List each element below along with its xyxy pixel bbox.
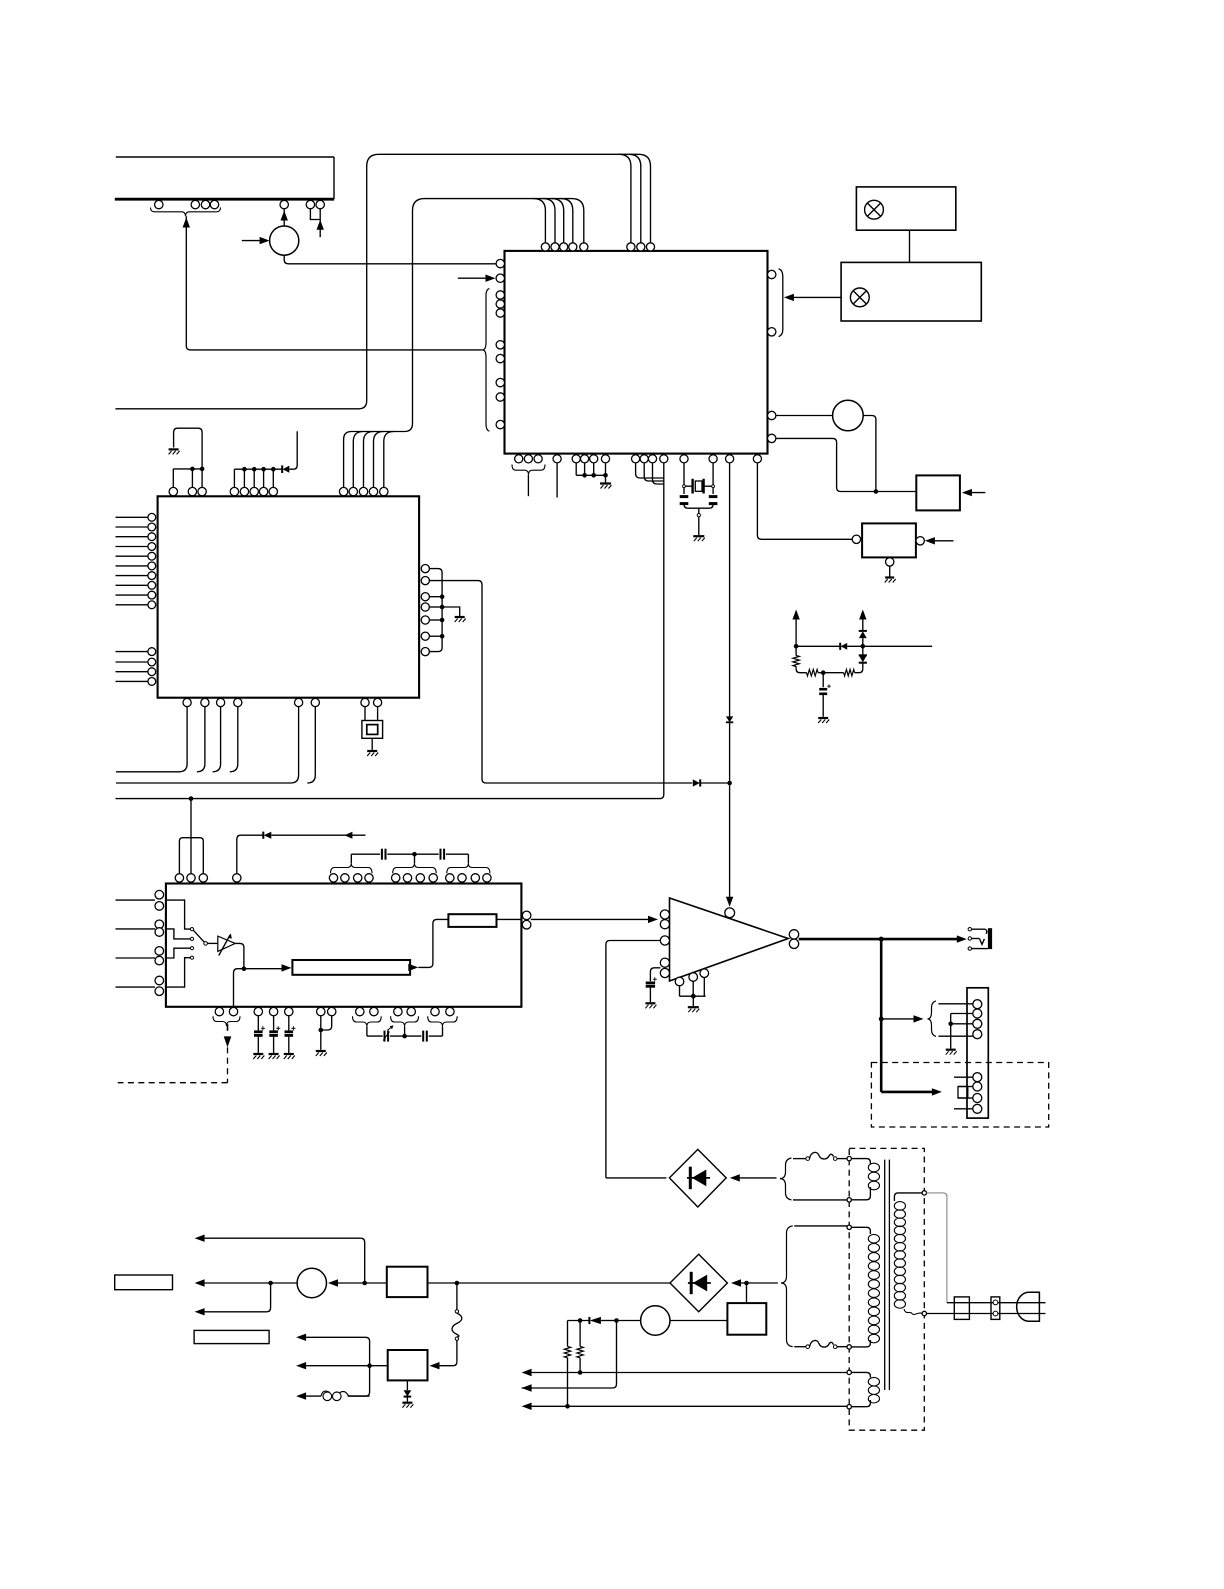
arrow into BR1 from transformer	[730, 1174, 777, 1181]
fuse holder box on AC line	[954, 1297, 969, 1320]
diode D7 on AC line	[568, 1317, 601, 1324]
wire IC2 pin around to diode junction	[430, 581, 693, 783]
polarized cap C8 to ground	[819, 673, 831, 717]
arrow stub into box B1	[965, 492, 986, 494]
wire pin to circle Q1	[283, 209, 285, 226]
ground IC2 rail	[455, 617, 466, 622]
wire rail to ground	[605, 475, 607, 482]
junction dot for line out branch	[879, 1017, 884, 1022]
capacitor Cx1	[680, 495, 689, 498]
power output arrow 2	[195, 1279, 298, 1286]
junction dot	[874, 489, 879, 494]
wire IC1 pin down to power amp with diode D1	[726, 463, 733, 900]
wire bundle IC3 top pins to bus	[179, 799, 203, 874]
ground below B2	[885, 578, 896, 583]
wire IC1 pin to crystal left	[683, 463, 685, 494]
IC2 left pin stub wires	[116, 517, 148, 681]
wire rail to ground	[442, 607, 460, 616]
wire CN1 brace to IC1 brace	[186, 216, 482, 350]
ground IC1 rail	[600, 484, 612, 489]
wire W1 bottom	[793, 1199, 847, 1201]
bridge rectifier BR1 diamond	[669, 1149, 726, 1207]
power output arrow 3	[195, 1283, 271, 1316]
junction dot	[319, 1028, 324, 1033]
bottom rail with resistors R2 R3	[796, 669, 863, 676]
resistor R4 vertical	[564, 1321, 570, 1407]
transformer primary terminals	[847, 1156, 851, 1409]
circle F1 fuse	[641, 1306, 670, 1335]
wire M1 to junction	[863, 416, 876, 492]
brace under IC1 bottom pin group	[512, 465, 545, 475]
wire IC1 bottom pin to box B2	[757, 463, 852, 539]
wire between lamp boxes	[909, 230, 911, 262]
AC plug	[1017, 1292, 1040, 1321]
variable amplifier triangle	[218, 933, 235, 955]
diode symbol in BR1	[687, 1167, 710, 1190]
ground IC2 loop	[169, 449, 180, 454]
brace line out connector	[928, 1001, 937, 1037]
electrolytic caps C3 C4 C5 with grounds	[253, 1016, 265, 1059]
wire W2 top	[794, 1225, 847, 1227]
IC3 bottom pins	[215, 1007, 454, 1015]
ground regulator cap	[818, 718, 829, 723]
CN1 pins	[155, 200, 325, 208]
dashed option box	[871, 1063, 1048, 1128]
wire B2 pin to ground	[889, 566, 891, 576]
speaker output thick wire	[799, 938, 963, 941]
arrowhead into headphone jack	[957, 935, 967, 942]
box B2	[862, 523, 916, 557]
line-out connector pins	[973, 1000, 982, 1114]
wire IC1 pin to crystal right	[712, 463, 714, 494]
wire junction down to middle rail	[522, 1321, 617, 1389]
arrowhead down into power amp top pin	[726, 897, 733, 907]
filter block	[448, 914, 496, 927]
crystal X2	[362, 721, 383, 750]
brace winding W1	[780, 1158, 792, 1200]
junction dot on amp feed wire	[727, 781, 732, 786]
wire thermal to box PB2 with arrow	[430, 1362, 457, 1370]
power output arrow 5	[296, 1362, 370, 1369]
junction dot on speaker line	[879, 937, 884, 942]
horizontal wire with diode D6	[796, 643, 932, 650]
junction dots on regulator wire	[794, 644, 865, 649]
IC2 left pins	[148, 513, 156, 685]
arrow line out to brace	[881, 1018, 915, 1020]
IC3 internal input selector wiring	[166, 900, 191, 987]
power amp top pin	[725, 908, 735, 918]
wire CN1 pin jumper U	[310, 209, 320, 220]
winding W1 coil	[851, 1159, 879, 1200]
crystal X1	[683, 479, 715, 494]
zener pair on right branch	[859, 646, 867, 668]
junction dot on bus to IC3	[189, 796, 194, 801]
resistor R1 vertical	[793, 646, 799, 668]
selector switch contacts	[190, 928, 207, 960]
diode D2 on rail with stub up	[282, 431, 297, 473]
arrow into Q1 from left	[242, 240, 261, 242]
headphone jack J1	[968, 928, 992, 951]
junction dots on power rails	[565, 1370, 582, 1408]
junction dot connector ground wire	[948, 1022, 953, 1027]
brace under CN1 pins	[151, 208, 221, 217]
winding W2 coil	[851, 1227, 879, 1347]
wire fuse to box B3	[670, 1320, 727, 1322]
IC1 bottom pins	[515, 455, 762, 463]
junction dots on loop rail	[190, 467, 204, 472]
winding W3 coil	[851, 1372, 879, 1406]
transformer dashed box	[849, 1148, 924, 1430]
wire junction to delay line with arrow	[244, 968, 284, 970]
box PB1 regulator	[387, 1267, 428, 1297]
wires brace to connector pins	[938, 1004, 972, 1036]
wire diode line to fuse	[601, 1320, 641, 1322]
wire PB2 left to output rail	[370, 1365, 388, 1367]
ground PB2 diode	[402, 1403, 413, 1408]
power amp input pins	[660, 910, 669, 978]
connector middle pins to ground	[951, 1014, 973, 1049]
interlock connector on AC line	[991, 1297, 1000, 1320]
wire W2 bottom with fuse F2	[794, 1340, 847, 1348]
IC3 top pins	[175, 874, 491, 882]
indicator box L1	[856, 187, 955, 230]
arrow stub into box B2 right pin	[928, 540, 954, 542]
junction dot in IC3	[242, 966, 247, 971]
amp bottom pins to ground bracket	[680, 978, 706, 1007]
arrow into BR2 from brace	[731, 1279, 778, 1286]
ground crystal X2	[367, 751, 378, 756]
wire amp to junction	[235, 943, 244, 968]
wire Q1 bottom to IC1 pin row	[284, 255, 496, 264]
junction dot thermal branch	[455, 1281, 460, 1286]
wires caps to common rail and ground node	[684, 504, 713, 535]
ground crystal X1	[693, 536, 705, 541]
IC3 left stub wires	[116, 900, 156, 987]
wire amp pin to decoupling cap	[650, 968, 660, 982]
power amplifier IC4 triangle	[670, 898, 789, 981]
junction dot bottom rail	[821, 670, 826, 675]
wire junction to bottom pin	[234, 969, 244, 1008]
lower connector pin stubs and link square	[954, 1077, 973, 1109]
IC1 ground pin rail	[576, 463, 605, 475]
junction dot BR2 feed	[744, 1281, 749, 1286]
stub wire from brace	[527, 475, 529, 496]
delay line block	[292, 960, 410, 975]
ground power amp	[688, 1007, 700, 1012]
IC3 left pins	[155, 890, 164, 995]
IC2 bottom pins	[183, 698, 382, 706]
IC3 audio processor box	[166, 884, 522, 1007]
diode symbol in BR2	[688, 1272, 711, 1294]
arrowhead up into CN1 pin	[281, 211, 288, 221]
power output arrow 6 with inductor	[296, 1391, 370, 1401]
supply arrow up right with diode D5	[859, 610, 867, 647]
switch arm	[193, 930, 204, 942]
lamp symbol in L1	[865, 200, 884, 219]
motor M1	[833, 400, 864, 431]
power rail arrows left	[522, 1369, 847, 1410]
diode D8 below PB2 to ground	[404, 1380, 412, 1401]
arrow stub into IC1 left pin 2	[458, 277, 488, 279]
IC3 right pins	[522, 911, 531, 929]
box PB2 regulator	[388, 1350, 428, 1380]
secondary top wire grey	[927, 1193, 947, 1303]
wire filter to IC3 output pins	[497, 918, 523, 920]
transformer core	[885, 1160, 890, 1390]
junction dot on lower cap rail	[402, 1034, 407, 1039]
label box LB2	[194, 1330, 269, 1343]
circle F2 motor	[297, 1268, 326, 1297]
braces under IC3 bottom pin pairs	[353, 1016, 458, 1026]
IC1 right pins	[768, 270, 776, 442]
IC1 left pins	[496, 259, 504, 428]
arrow out of delay line	[408, 964, 418, 971]
supply arrow up left	[792, 610, 799, 647]
box B1	[916, 475, 960, 510]
IC2 top ground loop circuit	[173, 428, 202, 487]
wire pole to amplifier	[207, 942, 217, 944]
junction dots on diode rail	[242, 467, 276, 472]
bridge rectifier BR2 diamond	[670, 1254, 727, 1311]
wire junction down to box B3	[746, 1283, 748, 1303]
wire IC1 pin to motor M1	[776, 415, 833, 417]
wire IC1 pins merging to bus going left	[116, 463, 664, 799]
brace under IC3 bottom pin pair 1	[213, 1016, 240, 1026]
wire stub with up arrow into CN1 pin	[319, 209, 321, 237]
arrow into F2 from box PB1	[328, 1279, 387, 1286]
wire IC3 outputs to power amp with arrow	[531, 918, 650, 920]
junction dot arrow2 wire	[268, 1281, 273, 1286]
arrowhead up into CN1 brace	[183, 218, 190, 228]
secondary coil	[894, 1193, 922, 1315]
IC2 top pins	[169, 487, 388, 495]
junction dot amp ground bracket	[691, 994, 696, 999]
wire bus L2 from IC1 top pins to IC2 top pins	[344, 199, 584, 487]
IC1 top pins	[541, 243, 654, 251]
braces above IC3 top pin groups	[331, 863, 490, 873]
thick wire down to record connector	[881, 939, 933, 1092]
wire L2 to IC1 right bracket with arrow	[792, 296, 841, 298]
label box LB1	[115, 1275, 173, 1290]
wire W1 top with fuse F1	[793, 1152, 847, 1160]
resistor R5 vertical	[577, 1321, 583, 1373]
capacitor rail over IC3 with caps C1 C2	[351, 849, 468, 864]
junction dots on AC control line	[578, 1318, 619, 1323]
ground connector	[946, 1050, 957, 1055]
power amp bottom pins	[675, 969, 708, 986]
wire PB1 to BR2	[428, 1282, 671, 1284]
power amp output pins	[789, 930, 798, 949]
junction dots on right rail	[440, 594, 445, 638]
junction dot on cap rail	[412, 852, 417, 857]
junction dots on ground rail	[582, 473, 608, 478]
thermal fuse squiggle down	[452, 1283, 462, 1362]
line-out connector block	[967, 988, 988, 1118]
box B2 side pins	[852, 535, 924, 545]
transformer secondary terminals	[922, 1191, 926, 1316]
IC2 servo signal processor	[158, 496, 420, 697]
brace winding W2	[781, 1226, 793, 1347]
diode D3 on horizontal wire	[693, 779, 728, 786]
junction dot PB2 rail	[367, 1363, 372, 1368]
wire IC1 pin to box B1	[776, 438, 916, 491]
box B2 bottom pin	[886, 558, 894, 566]
capacitor rail under IC3 with caps C6 C7	[367, 1025, 443, 1041]
junction dot arrow1 wire	[362, 1281, 367, 1286]
IC2 right pin rail	[430, 569, 443, 652]
indicator box L2	[841, 262, 981, 321]
circle Q1 rotation sensor	[270, 226, 299, 255]
IC2 diode pin rail	[234, 469, 281, 487]
IC2 right pins	[421, 565, 429, 656]
dashed signal arrow down-left	[118, 1024, 232, 1083]
ground amp cap	[645, 1003, 656, 1008]
wire bundle IC2 bottom pins to left edge lower	[116, 707, 315, 783]
box B3 power supply switch	[727, 1303, 766, 1335]
capacitor Cx2	[709, 495, 718, 498]
connector block CN1 (top-left, open at page edge)	[115, 157, 334, 199]
stub wire from IC1 single pin	[556, 463, 558, 498]
bracket IC1 right pins	[779, 269, 783, 337]
wire amp input down to bridge BR1	[606, 1177, 667, 1179]
wire IC3 pin with diode D4 and arrow	[237, 832, 366, 874]
wire bus L1 from IC1 top pins to left edge	[115, 154, 650, 408]
arrowhead into lower connector	[932, 1088, 942, 1095]
ground pin pair	[316, 1051, 327, 1056]
brace IC1 left pin group	[482, 288, 489, 431]
polarized cap at amp input	[646, 977, 657, 1002]
wire bundle IC2 bottom pins to left edge upper	[116, 707, 238, 772]
lamp symbol in L2	[850, 288, 869, 307]
power output arrow 4	[296, 1334, 370, 1397]
AC line wires to plug	[927, 1303, 1046, 1314]
wire input from bridge rectifier line	[606, 941, 660, 1178]
IC1 system control microprocessor	[505, 251, 768, 454]
wire delay line to filter block	[418, 919, 448, 967]
wires IC2 pins to crystal X2	[365, 707, 378, 721]
power output arrow 1	[195, 1235, 365, 1284]
wire pin pair to ground	[321, 1016, 332, 1050]
